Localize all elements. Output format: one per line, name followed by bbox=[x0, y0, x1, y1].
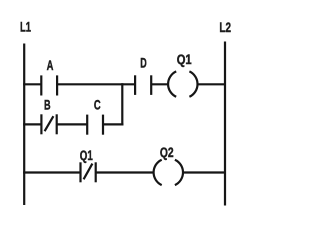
wire rung2: L1 to contact B bbox=[23, 123, 41, 125]
wire rung1: coil Q1 to L2 bbox=[197, 83, 225, 85]
contact Q1 (normally closed) bbox=[81, 162, 96, 182]
svg-text:L2: L2 bbox=[219, 20, 231, 35]
contact B (normally closed) bbox=[41, 114, 56, 134]
contact D (normally open) bbox=[135, 75, 151, 95]
svg-text:B: B bbox=[44, 98, 51, 113]
wire rung3: L1 to contact Q1 bbox=[23, 171, 80, 173]
svg-text:C: C bbox=[94, 98, 101, 113]
svg-text:D: D bbox=[140, 56, 147, 71]
right power rail L2 bbox=[224, 42, 226, 206]
wire rung3: coil Q2 to L2 bbox=[182, 171, 225, 173]
wire rung1: L1 to contact A bbox=[23, 83, 41, 85]
wire branch vertical: rung1 junction down to rung2 bbox=[121, 83, 123, 125]
left power rail L1 bbox=[23, 44, 25, 206]
wire rung3: contact Q1 to coil Q2 bbox=[96, 171, 155, 173]
svg-text:L1: L1 bbox=[20, 19, 31, 34]
wire rung2: contact C to branch junction bbox=[103, 123, 123, 125]
svg-text:Q1: Q1 bbox=[177, 52, 192, 67]
coil Q2 bbox=[154, 160, 183, 185]
coil Q1 bbox=[168, 71, 197, 96]
wire rung1: contact D to coil Q1 bbox=[151, 83, 169, 85]
contact A (normally open) bbox=[41, 75, 57, 95]
wire rung1: contact A to contact D bbox=[57, 83, 135, 85]
wire rung2: contact B to contact C bbox=[57, 123, 87, 125]
svg-text:A: A bbox=[47, 58, 54, 73]
svg-text:Q2: Q2 bbox=[160, 145, 174, 160]
svg-text:Q1: Q1 bbox=[80, 148, 93, 163]
contact C (normally open) bbox=[87, 115, 103, 135]
